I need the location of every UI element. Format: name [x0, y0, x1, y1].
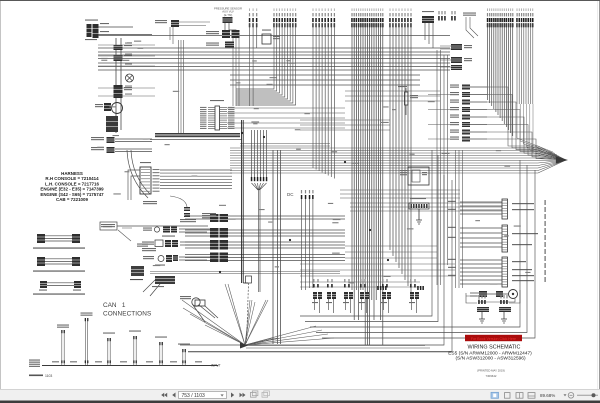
wires from pin group G: [488, 23, 513, 136]
mid horizontals left of trunk: [227, 108, 345, 128]
vertical text solenoid actuator: [545, 200, 546, 282]
mid-left upper chain: [143, 196, 216, 222]
pin group D: [351, 8, 383, 27]
pin group E: [389, 8, 412, 27]
svg-text:ES5 (S/N ARWM12000 - ARWM12447: ES5 (S/N ARWM12000 - ARWM12447): [448, 350, 532, 356]
svg-text:CAN 1: CAN 1: [103, 302, 126, 309]
wires from pin group D trunk: [352, 23, 383, 345]
horizontal lines mid right: [345, 91, 440, 101]
pin group B: [273, 8, 296, 27]
verticals feeding bus band: [179, 40, 184, 133]
pressure sensor aux vlv: [214, 7, 242, 24]
pin group H: [516, 8, 533, 27]
pin group C: [312, 8, 335, 27]
connector top-left fuel sender: [85, 20, 109, 41]
harness part-number text block: [40, 171, 104, 202]
wire fuel sender out: [99, 27, 153, 133]
svg-text:1103: 1103: [45, 374, 52, 378]
red link box: [465, 335, 522, 341]
bottom connector cluster 1: [312, 279, 322, 313]
connector chain left: [114, 45, 133, 98]
connector block top E2: [422, 16, 434, 23]
jumper assembly J3: [33, 281, 85, 295]
toolbar zoom controls: [491, 392, 598, 398]
throttle actuator motor M2: [470, 290, 518, 303]
relay K2 with dashed wire: [246, 276, 252, 344]
long single verticals center: [273, 150, 281, 344]
CAN 1 CONNECTIONS title: [103, 302, 151, 318]
wires from pin group B: [236, 23, 296, 105]
cluster curve wires: [127, 150, 150, 198]
long horizontals y272: [150, 272, 340, 274]
wires from pin group E: [390, 23, 411, 292]
CAN tap node 5: [155, 337, 167, 366]
wires mid pin pair: [302, 199, 313, 290]
bottom connector cluster 3: [343, 279, 353, 313]
nested routing rectangles bottom: [180, 150, 535, 352]
CAN tap node 4: [129, 331, 141, 366]
pin group A: [249, 8, 258, 27]
inline connector pairs center: [210, 214, 228, 262]
toolbar background: [0, 389, 600, 401]
svg-text:7309642: 7309642: [486, 374, 497, 378]
lamp symbol circle: [126, 74, 134, 82]
svg-text:CONNECTIONS: CONNECTIONS: [103, 311, 151, 318]
pin group G: [487, 8, 514, 27]
relay block K1: [143, 276, 175, 296]
junction dots: [219, 132, 389, 273]
wires from connector E2: [425, 23, 433, 48]
ground stack 2: [499, 295, 511, 323]
fuel sender row top: [155, 20, 210, 44]
spacer: [0, 0, 1, 1]
ladder connector throttle mid: [502, 225, 538, 252]
pressure sensor wires: [225, 23, 236, 35]
right component rows: [428, 85, 487, 142]
CAN tap node 6: [178, 344, 190, 366]
central connector ladder U1: [200, 100, 235, 130]
wires from pin group A: [250, 23, 257, 48]
CAN tap node 1: [57, 325, 69, 366]
cluster wiring: [128, 170, 232, 200]
wires from pin group H: [517, 23, 533, 104]
fuse F1: [398, 86, 418, 115]
pin row under bundle: [251, 177, 267, 181]
right converging fan arrow: [230, 87, 566, 173]
title block text: [448, 345, 532, 379]
sensor connector stack top: [206, 30, 240, 48]
ladder wire labels: [448, 201, 456, 276]
label block top F3: [463, 13, 476, 14]
ACC plug connector with ground: [409, 198, 429, 224]
pin group F2 small: [438, 11, 446, 21]
left chain cross wires: [98, 43, 155, 97]
center trunk pair dark: [242, 120, 244, 283]
spare connector component left: [103, 224, 148, 280]
svg-text:(S/N ASW312000 - ASW312596): (S/N ASW312000 - ASW312596): [455, 356, 526, 362]
toolbar page navigation: [161, 391, 269, 399]
bottom connector cluster 5: [381, 279, 391, 313]
bundle fan to pair: [252, 183, 267, 292]
diode block D1: [262, 30, 280, 45]
svg-text:WIRING SCHEMATIC: WIRING SCHEMATIC: [468, 345, 521, 351]
bottom converging fan: [182, 284, 452, 352]
right lower horizontals: [345, 246, 437, 258]
svg-text:CAB = 7221009: CAB = 7221009: [56, 197, 88, 202]
bottom connector cluster 4: [359, 279, 369, 313]
svg-text:(PRINTED MAY 2019): (PRINTED MAY 2019): [477, 369, 505, 373]
CAN bus line: [29, 360, 221, 368]
vertical text right edge mid: [0, 0, 1, 1]
H-group corner wires to fan: [517, 104, 563, 159]
jumper assembly J2: [33, 257, 85, 272]
svg-text:(E.TM): (E.TM): [224, 13, 233, 17]
wires rows left mid: [115, 139, 152, 152]
inline connector wires: [185, 216, 345, 261]
horn symbol H1: [180, 296, 215, 322]
footer doc number: [29, 374, 52, 378]
ground stack 1: [477, 295, 489, 323]
center wire bundle 251-268: [252, 130, 267, 177]
wires A-group down: [250, 48, 254, 106]
svg-text:DC: DC: [287, 192, 294, 197]
ladder connector throttle top: [502, 199, 534, 219]
window bottom dark strip: [0, 401, 600, 403]
bottom connector cluster 2: [326, 279, 336, 313]
instrument cluster connector: [140, 162, 160, 194]
frame verticals right-center: [437, 50, 441, 285]
wires to ground stacks: [466, 290, 520, 303]
CAN tap node 3: [103, 333, 115, 366]
connector rows left mid: [91, 137, 115, 153]
connector pair right top: [440, 44, 472, 70]
svg-text:INPUT: INPUT: [211, 364, 221, 368]
svg-text:For Book Version Click Here: For Book Version Click Here: [471, 337, 516, 341]
jumper assembly J1: [33, 234, 85, 249]
svg-text:753 / 1103: 753 / 1103: [182, 393, 205, 399]
scattered wire gauge labels: [97, 41, 530, 285]
wires pressure sensor to ladder: [233, 30, 239, 106]
wires from pin group C: [313, 23, 334, 179]
motor M1 left chain: [95, 103, 123, 133]
switch rows mid-left: [100, 222, 178, 266]
bottom extra pins: [377, 286, 386, 290]
bottom connector cluster 6: [409, 279, 419, 313]
svg-text:89.68%: 89.68%: [540, 393, 555, 398]
relay box K3: [400, 167, 429, 185]
mid pin pair: [301, 190, 307, 199]
ladder left wires: [460, 202, 502, 284]
horizontal bus lines upper: [98, 36, 450, 71]
dense bus band: [155, 133, 240, 137]
ladder connector battery: [502, 257, 534, 287]
switch row wires: [117, 226, 210, 260]
CAN tap node 2: [81, 313, 93, 366]
small box above fan: [195, 300, 205, 306]
